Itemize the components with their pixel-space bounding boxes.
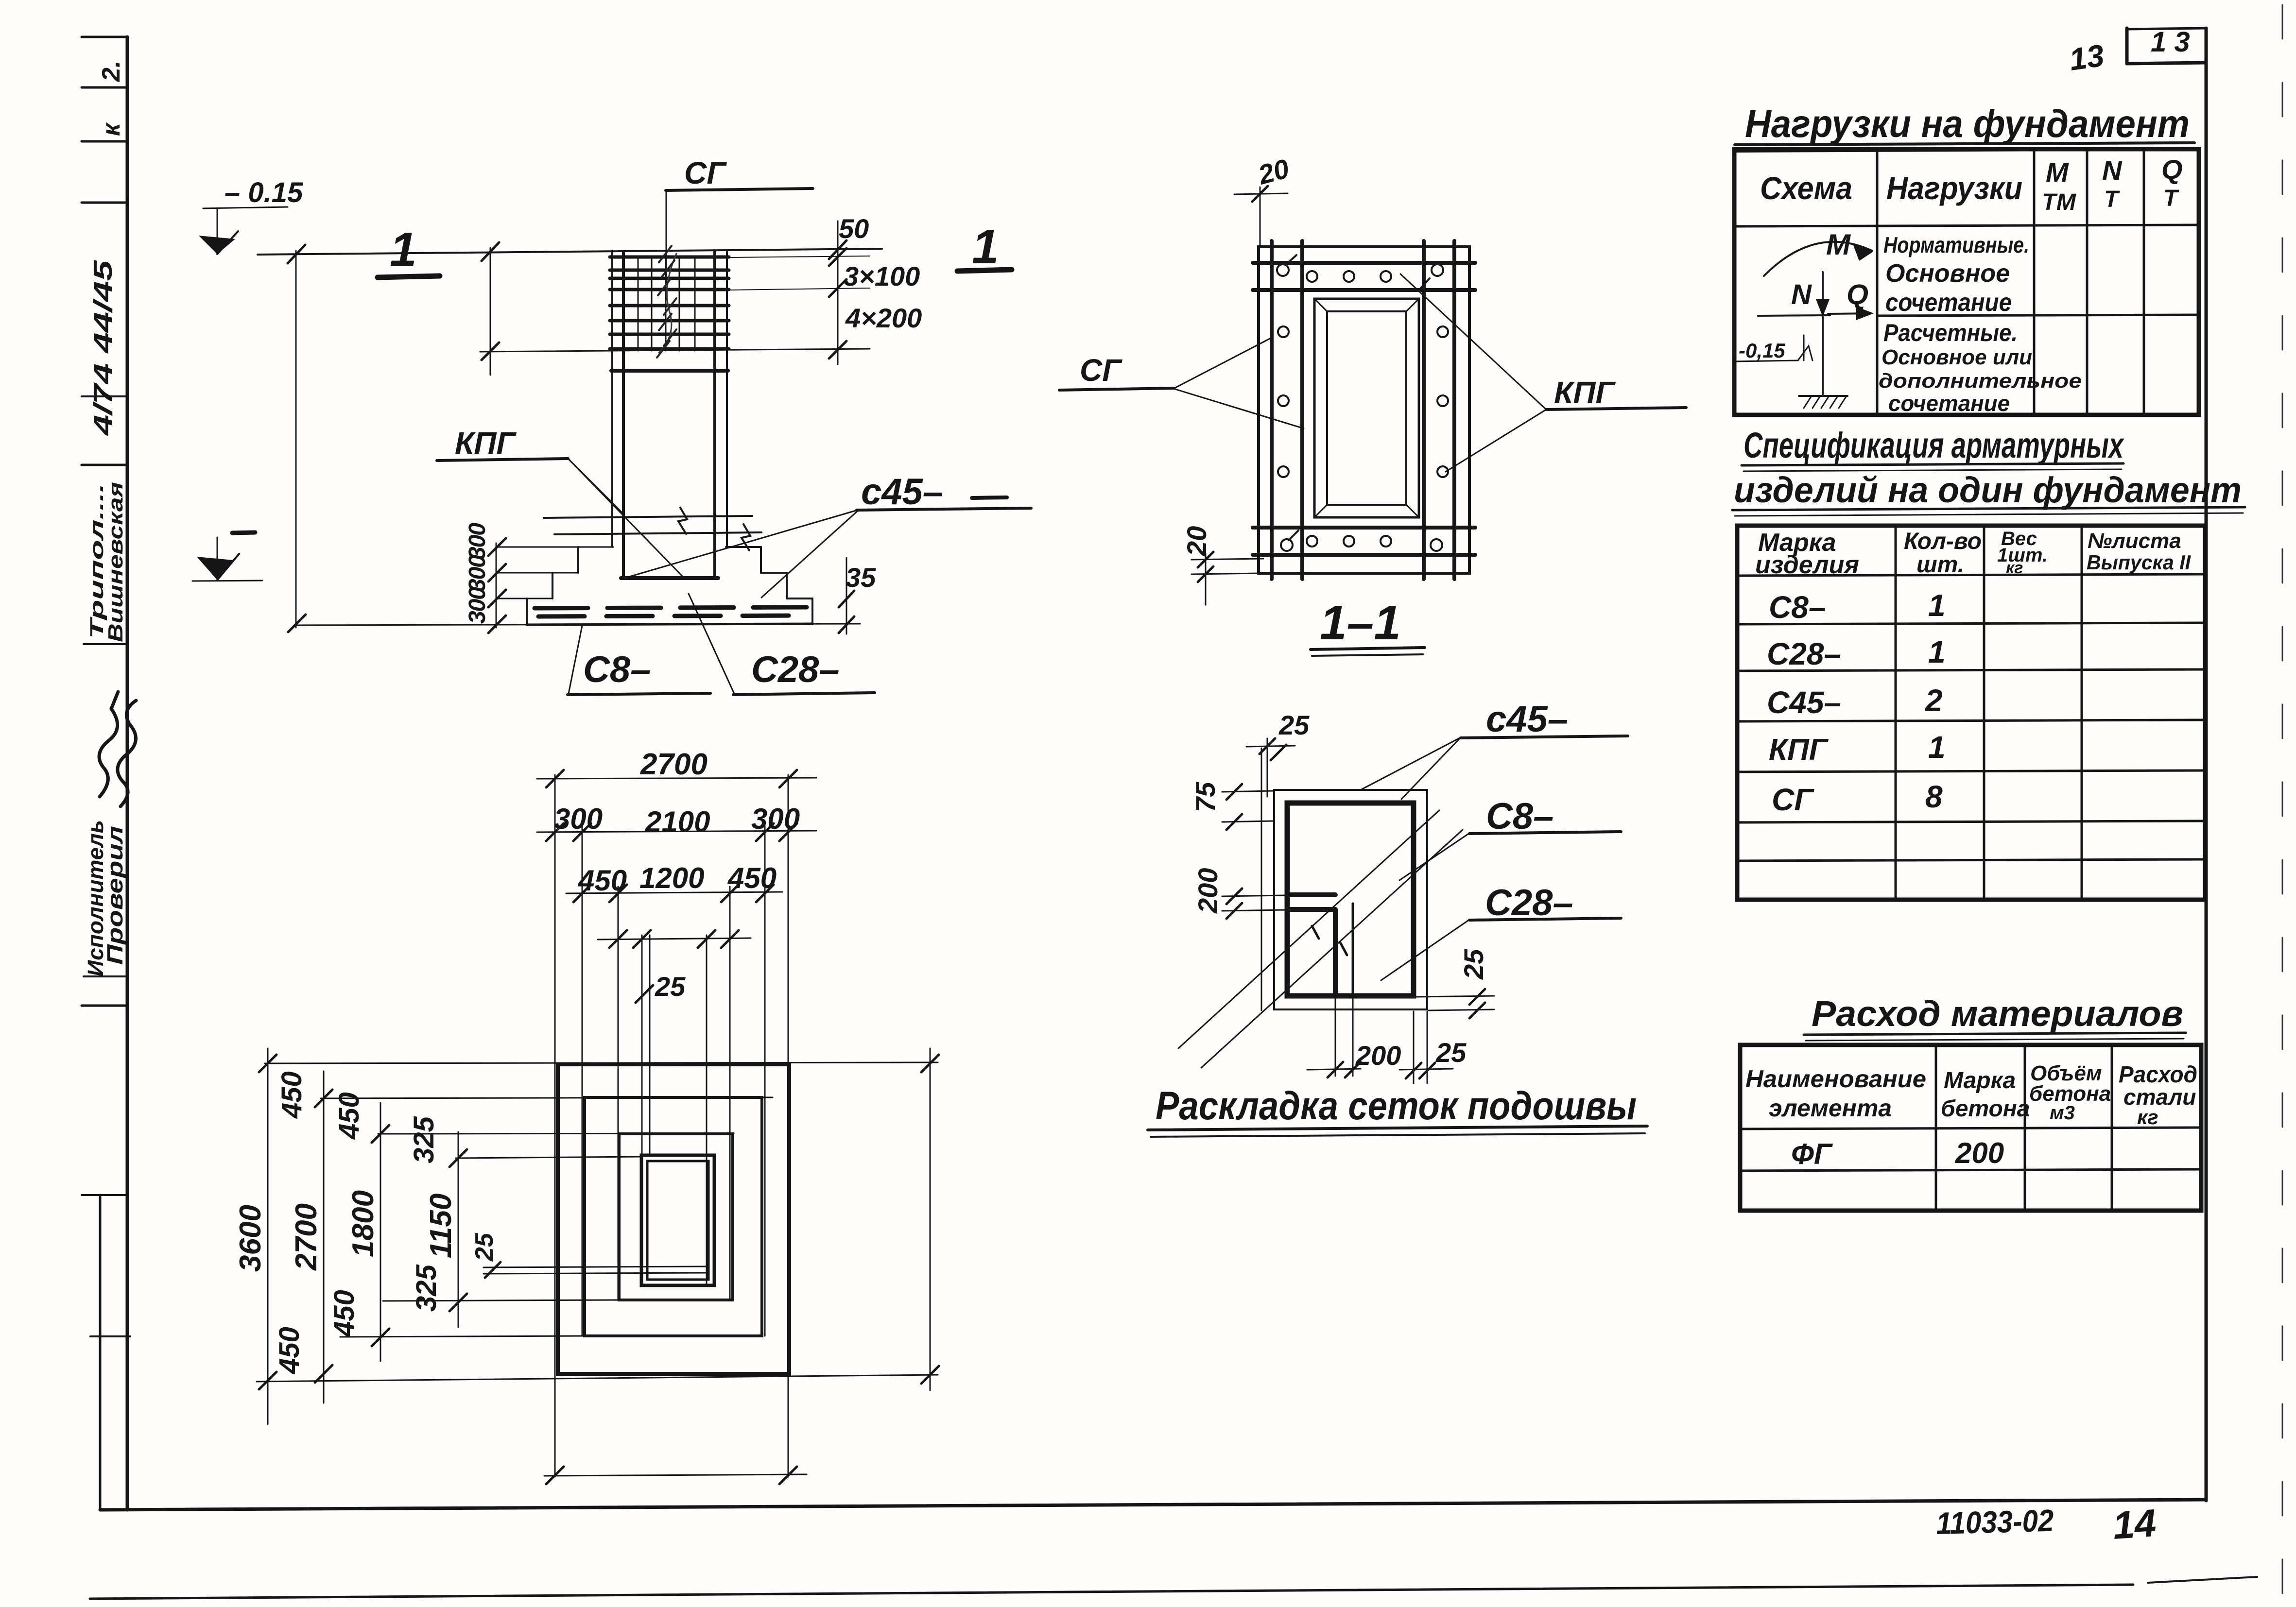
bottom extension lines <box>1335 998 1336 1076</box>
svg-text:-0,15: -0,15 <box>1739 339 1785 362</box>
ground level line <box>258 249 882 255</box>
svg-text:Схема: Схема <box>1760 170 1852 206</box>
svg-text:25: 25 <box>1435 1037 1467 1068</box>
SG mesh bars (4x200 zone) <box>610 304 729 308</box>
diagonal lay direction line 2 <box>1201 830 1463 1068</box>
dim line 2700 top <box>537 778 816 779</box>
KPG horizontal bar top 2 <box>1253 288 1475 292</box>
KPG vertical bar 2 <box>1300 241 1304 579</box>
svg-text:1: 1 <box>1928 730 1946 765</box>
svg-text:Т: Т <box>2104 187 2120 212</box>
SG leaders <box>1174 337 1273 389</box>
svg-text:СГ: СГ <box>684 155 727 190</box>
svg-text:1: 1 <box>1928 634 1946 669</box>
loads table frame <box>1734 149 2199 415</box>
svg-text:20: 20 <box>1255 153 1292 190</box>
svg-text:75: 75 <box>1190 782 1221 812</box>
extension line top 1150sq <box>456 1157 642 1158</box>
KPG vertical bar 4 <box>1452 241 1456 579</box>
C45 leader lines <box>761 510 859 598</box>
svg-text:М: М <box>1826 228 1851 261</box>
right page edge broken line <box>2282 5 2283 1603</box>
svg-text:450: 450 <box>276 1071 308 1119</box>
svg-text:С28–: С28– <box>1485 882 1573 923</box>
spec row lines <box>1737 623 2205 624</box>
svg-text:№листа: №листа <box>2088 529 2181 553</box>
svg-text:с45–: с45– <box>1486 699 1568 740</box>
tick on ground at right dim <box>829 240 846 259</box>
step 2 <box>496 572 578 574</box>
svg-text:13: 13 <box>2067 38 2106 77</box>
svg-text:Нагрузки: Нагрузки <box>1886 170 2022 206</box>
mesh C45 bar 2 <box>1287 907 1335 912</box>
socket hole outer wall <box>1314 299 1419 517</box>
rebar dots top row <box>1307 271 1317 282</box>
break lines with squiggle <box>544 516 752 518</box>
svg-text:1 3: 1 3 <box>2151 26 2190 58</box>
svg-text:1150: 1150 <box>424 1194 458 1258</box>
mid height dimension line (mesh zone) <box>490 248 491 375</box>
svg-text:1200: 1200 <box>639 862 704 894</box>
left frame border (thick vertical) <box>126 37 129 1510</box>
outer concrete outline <box>1259 247 1469 573</box>
extension line top 3600 <box>265 1062 938 1063</box>
svg-text:сочетание: сочетание <box>1885 289 2012 317</box>
svg-text:25: 25 <box>470 1232 499 1262</box>
step dimension line 300x3 <box>496 543 497 628</box>
KPG bottom bar <box>621 576 718 580</box>
svg-text:С45–: С45– <box>1767 685 1841 720</box>
svg-text:Раскладка сеток подошвы: Раскладка сеток подошвы <box>1156 1084 1637 1128</box>
mesh C28 second vertical <box>1352 904 1354 996</box>
schema ground line <box>1758 315 1830 316</box>
svg-text:сочетание: сочетание <box>1888 391 2010 416</box>
left dim line 1800 <box>380 1103 381 1361</box>
svg-text:Наименование: Наименование <box>1745 1065 1926 1093</box>
svg-text:1–1: 1–1 <box>1320 596 1401 650</box>
svg-text:N: N <box>1791 279 1812 310</box>
svg-text:25: 25 <box>655 971 686 1002</box>
schema sketch: moment arc M <box>1764 242 1872 276</box>
extension line bottom 1800sq <box>340 1336 585 1337</box>
svg-text:– 0.15: – 0.15 <box>224 177 303 208</box>
svg-text:8: 8 <box>1925 779 1943 814</box>
svg-text:с45–: с45– <box>861 471 943 513</box>
svg-text:Q: Q <box>2161 154 2183 185</box>
right frame border <box>2205 28 2208 1501</box>
svg-text:Расчетные.: Расчетные. <box>1883 319 2018 346</box>
KPG leader lines <box>568 459 624 515</box>
SG mesh bars (3x100 zone) <box>610 256 729 259</box>
KPG frame top bar <box>611 369 728 373</box>
svg-text:шт.: шт. <box>1916 552 1964 578</box>
svg-text:кг: кг <box>2137 1106 2158 1128</box>
svg-text:ТМ: ТМ <box>2042 189 2076 215</box>
step 1 top <box>496 547 613 548</box>
svg-text:50: 50 <box>839 213 869 244</box>
vertical extension x1198 <box>582 826 583 1336</box>
svg-text:бетона: бетона <box>1941 1096 2030 1122</box>
svg-text:Расход материалов: Расход материалов <box>1812 993 2183 1034</box>
row divider <box>1877 315 2199 316</box>
svg-text:2100: 2100 <box>645 805 710 838</box>
svg-text:1: 1 <box>1928 588 1946 623</box>
svg-text:2.: 2. <box>97 61 125 82</box>
vertical extension x1574 <box>764 826 766 1336</box>
svg-text:Кол-во: Кол-во <box>1904 529 1982 554</box>
schema column post <box>1822 316 1824 396</box>
svg-text:С8–: С8– <box>1769 590 1826 625</box>
svg-text:КПГ: КПГ <box>1769 733 1829 767</box>
svg-text:Т: Т <box>2163 186 2179 211</box>
vertical 25 pair <box>641 935 643 1155</box>
svg-text:450: 450 <box>578 864 627 897</box>
spec header divider <box>1737 574 2205 576</box>
KPG horizontal bar top 1 <box>1253 261 1475 265</box>
stamp cell dividers <box>82 36 127 38</box>
extension line top 2700sq <box>321 1097 773 1098</box>
svg-text:кг: кг <box>2006 559 2023 577</box>
bottom scan edge line <box>90 1585 2133 1599</box>
SG mesh thin verticals <box>638 256 639 351</box>
svg-text:300: 300 <box>465 587 490 624</box>
svg-text:Вишневская: Вишневская <box>104 482 127 642</box>
step 2 outline 2100x2700 <box>585 1097 762 1336</box>
diagonal lay direction line 1 <box>1178 810 1439 1048</box>
vertical extension x1272 <box>618 887 619 1300</box>
svg-text:С28–: С28– <box>1767 636 1841 671</box>
mesh C45 bar 1 <box>1287 892 1335 897</box>
vertical extension x1502 <box>729 887 731 1300</box>
tick on ground at mid dim <box>482 242 499 261</box>
bottom dim line <box>544 1474 807 1476</box>
stray dash left <box>972 497 1007 498</box>
svg-text:Q: Q <box>1847 279 1868 310</box>
extension lines from bars <box>729 256 870 257</box>
svg-text:25: 25 <box>1458 949 1489 980</box>
vertical extension x1454 <box>706 935 708 1285</box>
svg-text:изделия: изделия <box>1755 551 1859 579</box>
svg-text:м3: м3 <box>2050 1102 2075 1124</box>
slab outline (thin) <box>1274 790 1427 1009</box>
slab bottom line <box>296 624 860 625</box>
svg-text:Нормативные.: Нормативные. <box>1883 232 2029 257</box>
dim line 300/2100/300 <box>537 831 816 832</box>
extension line top 1800sq <box>378 1133 734 1134</box>
svg-text:450: 450 <box>328 1290 360 1337</box>
vertical extension x1622 <box>788 775 789 1477</box>
mesh zone bottom extension <box>480 349 870 352</box>
column outline right <box>726 250 728 547</box>
KPG leaders <box>1400 274 1546 410</box>
extension line bottom 3600 <box>257 1375 938 1382</box>
stamp signatures <box>99 692 118 797</box>
KPG vertical bar 1 <box>1270 241 1274 579</box>
svg-text:450: 450 <box>727 862 777 894</box>
bottom frame border <box>100 1500 2206 1510</box>
svg-text:С8–: С8– <box>583 649 651 690</box>
svg-text:3×100: 3×100 <box>844 261 920 291</box>
left inner stamp vertical <box>99 1195 102 1510</box>
svg-text:Марка: Марка <box>1944 1068 2016 1094</box>
svg-text:стали: стали <box>2123 1084 2196 1110</box>
svg-text:дополнительное: дополнительное <box>1879 369 2082 392</box>
header divider <box>1734 225 2199 226</box>
svg-text:300: 300 <box>554 803 603 835</box>
svg-text:N: N <box>2102 155 2123 186</box>
svg-text:Спецификация арматурных: Спецификация арматурных <box>1744 425 2124 465</box>
mesh hatch diagonal in column <box>659 254 676 353</box>
vertical extension x1142 <box>554 775 556 1477</box>
KPG horizontal bar bottom 1 <box>1253 526 1475 530</box>
svg-text:Нагрузки на фундамент: Нагрузки на фундамент <box>1745 102 2190 145</box>
svg-text:2700: 2700 <box>290 1203 323 1271</box>
left dim line 1150 <box>458 1132 459 1327</box>
dim line socket <box>598 938 751 940</box>
schema ground hatch <box>1799 395 1847 397</box>
svg-text:25: 25 <box>1278 710 1310 740</box>
svg-text:Основное или: Основное или <box>1882 345 2032 369</box>
right vertical dim <box>930 1048 931 1390</box>
svg-text:КПГ: КПГ <box>1554 375 1616 410</box>
step 3 (slab) <box>496 598 552 599</box>
svg-text:300: 300 <box>465 523 490 560</box>
right stirrup dimension line <box>837 221 839 364</box>
svg-text:325: 325 <box>411 1264 442 1312</box>
svg-text:325: 325 <box>408 1116 440 1163</box>
svg-text:Проверил: Проверил <box>103 826 127 965</box>
left extension line <box>1261 748 1262 1010</box>
dim 35 right <box>846 558 847 634</box>
svg-text:35: 35 <box>846 562 876 593</box>
svg-text:элемента: элемента <box>1769 1094 1892 1122</box>
socket corner chamfers <box>1314 299 1327 311</box>
svg-text:М: М <box>2046 157 2069 188</box>
column socket outer <box>641 1155 714 1285</box>
underline of sheet number <box>2148 1577 2257 1583</box>
svg-text:СГ: СГ <box>1772 782 1814 817</box>
svg-text:11033-02: 11033-02 <box>1935 1503 2054 1541</box>
left dim line 2700 <box>323 1071 325 1403</box>
rebar dots left column <box>1278 326 1289 337</box>
pedestal outline 1200x1800 <box>619 1134 733 1300</box>
slab bottom step outline 2700x3600 <box>558 1064 789 1374</box>
svg-text:Выпуска II: Выпуска II <box>2087 551 2191 574</box>
mesh C28 left edge <box>1333 909 1338 996</box>
svg-text:200: 200 <box>1192 868 1223 914</box>
hook loops bottom corners <box>1281 530 1298 551</box>
svg-text:3600: 3600 <box>234 1205 267 1272</box>
svg-text:2700: 2700 <box>640 748 708 781</box>
svg-text:Основное: Основное <box>1885 259 2010 288</box>
tick on ground at left dim <box>288 245 305 263</box>
svg-text:300: 300 <box>751 803 800 835</box>
hook loops top corners <box>1277 255 1296 276</box>
svg-text:С8–: С8– <box>1486 796 1554 837</box>
svg-text:СГ: СГ <box>1080 353 1122 388</box>
svg-text:1: 1 <box>390 222 417 277</box>
dim line 450/1200/450 <box>566 892 782 893</box>
svg-text:450: 450 <box>274 1327 305 1374</box>
svg-text:КПГ: КПГ <box>455 426 517 461</box>
extension line bottom 1150sq <box>383 1300 619 1301</box>
svg-text:1: 1 <box>972 220 999 274</box>
lower elevation mark <box>232 532 255 533</box>
svg-text:20: 20 <box>1181 526 1212 557</box>
svg-text:14: 14 <box>2111 1501 2158 1547</box>
KPG vertical bar 3 <box>1422 241 1426 579</box>
svg-text:изделий на один фундамент: изделий на один фундамент <box>1734 470 2242 510</box>
specification table frame <box>1737 526 2205 900</box>
materials table frame <box>1740 1045 2201 1211</box>
svg-text:300: 300 <box>465 555 490 592</box>
svg-text:450: 450 <box>333 1092 365 1140</box>
extension 25 pair horizontal <box>483 1266 708 1267</box>
rebar dots bottom row <box>1307 536 1317 547</box>
svg-text:С28–: С28– <box>751 649 840 690</box>
top-right sheet number box <box>2125 28 2129 64</box>
svg-text:200: 200 <box>1955 1137 2004 1169</box>
KPG horizontal bar bottom 2 <box>1253 553 1475 557</box>
svg-text:4/74 44/45: 4/74 44/45 <box>88 260 118 436</box>
left dim line 3600 <box>267 1048 269 1424</box>
socket hole inner wall <box>1327 311 1406 505</box>
svg-text:4×200: 4×200 <box>845 303 922 333</box>
column outline left <box>611 251 613 547</box>
column socket inner <box>647 1161 708 1280</box>
svg-text:ФГ: ФГ <box>1791 1138 1833 1170</box>
left height dimension line <box>295 251 297 628</box>
column rebar KPG verticals <box>622 252 625 578</box>
svg-text:к: к <box>97 122 125 136</box>
mesh C8 (thick rect) <box>1287 803 1414 996</box>
svg-text:2: 2 <box>1925 683 1943 718</box>
svg-text:200: 200 <box>1355 1040 1401 1071</box>
rebar dots right column <box>1437 326 1448 337</box>
slab meshes C8/C28 (dashed bars) <box>535 607 807 608</box>
svg-text:Трипол....: Трипол.... <box>87 483 107 639</box>
svg-text:1800: 1800 <box>346 1190 380 1257</box>
